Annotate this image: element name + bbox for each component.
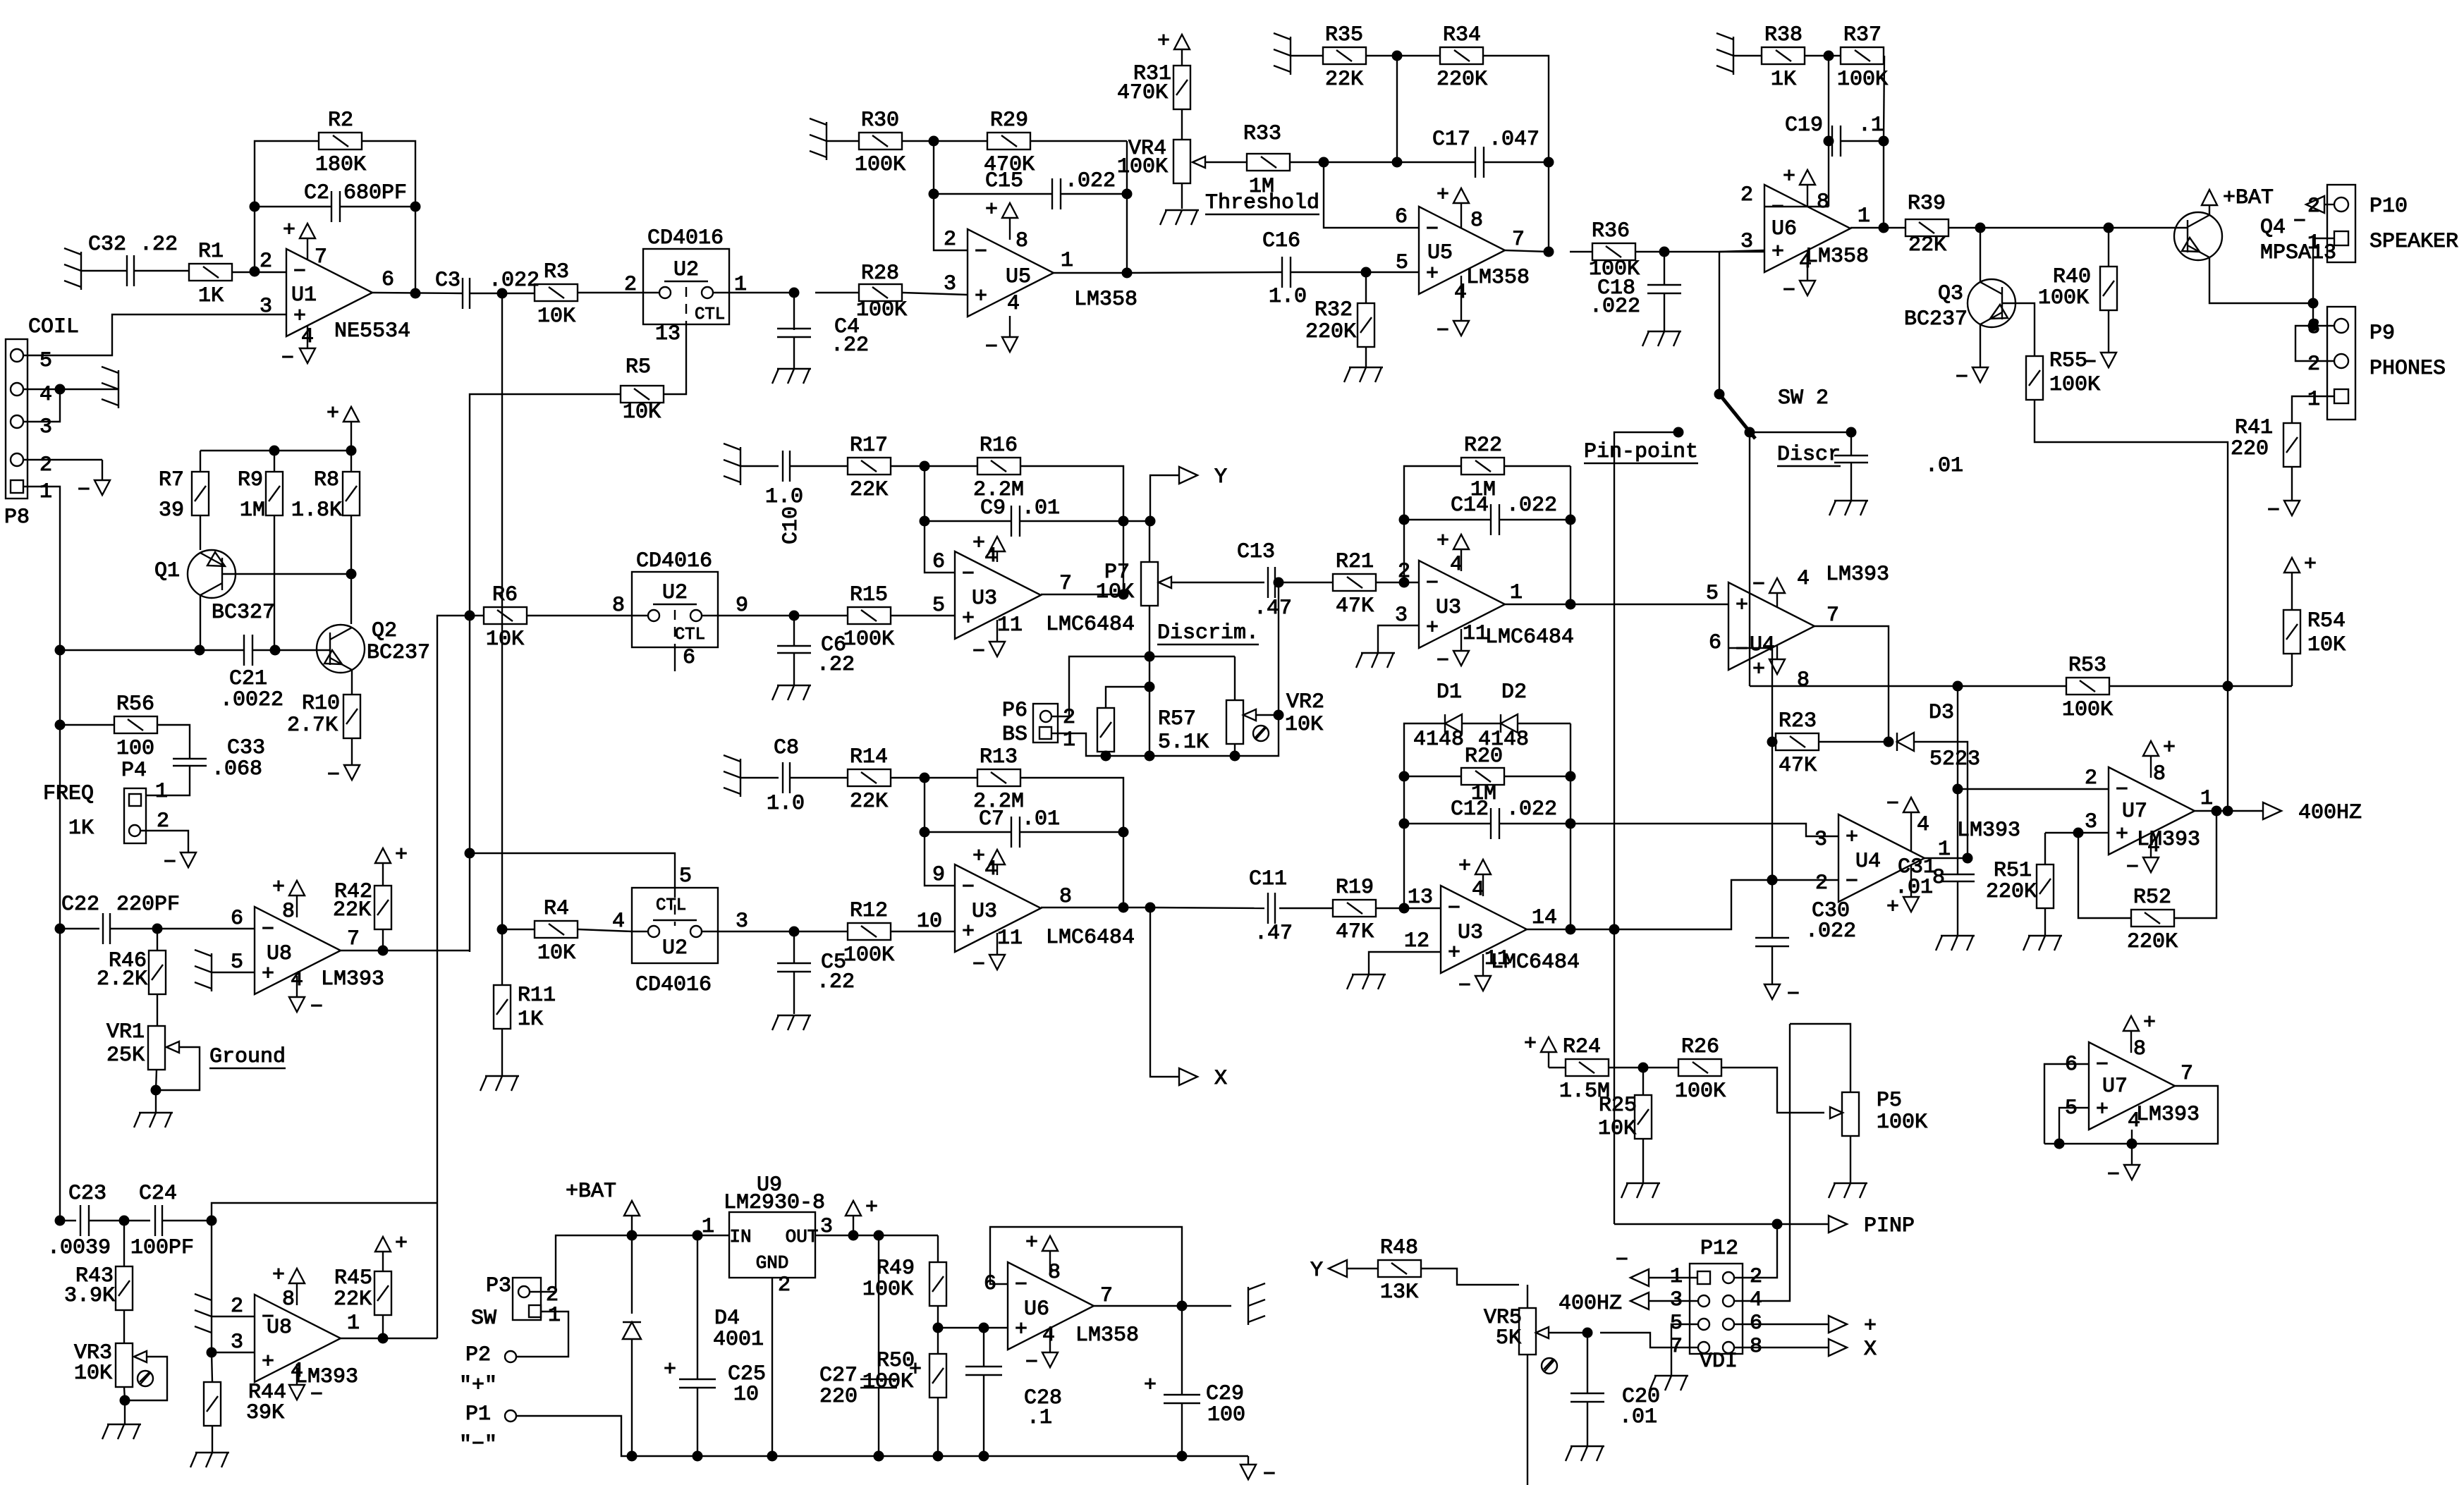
svg-text:400HZ: 400HZ — [1559, 1292, 1622, 1316]
svg-text:2: 2 — [1815, 872, 1828, 896]
svg-text:+: + — [975, 285, 987, 309]
svg-text:R57: R57 — [1158, 707, 1196, 731]
svg-text:C24: C24 — [139, 1182, 177, 1206]
svg-text:.0039: .0039 — [47, 1236, 111, 1260]
svg-text:+: + — [1524, 1032, 1537, 1056]
svg-text:R51: R51 — [1994, 859, 2032, 883]
svg-text:11: 11 — [1463, 622, 1488, 646]
svg-text:C17: C17 — [1432, 128, 1470, 152]
svg-text:−: − — [164, 851, 176, 875]
svg-text:.22: .22 — [831, 334, 869, 357]
svg-text:+: + — [1144, 1374, 1157, 1398]
svg-text:8: 8 — [2153, 762, 2166, 786]
svg-text:8: 8 — [1797, 668, 1810, 692]
svg-text:Q3: Q3 — [1938, 282, 1963, 306]
svg-text:+: + — [1783, 165, 1795, 189]
svg-text:.22: .22 — [817, 970, 855, 994]
svg-text:10K: 10K — [537, 941, 575, 965]
svg-text:8: 8 — [1016, 229, 1028, 253]
svg-text:.1: .1 — [1858, 114, 1884, 137]
svg-text:R41: R41 — [2235, 416, 2273, 440]
svg-text:C33: C33 — [227, 736, 265, 760]
svg-text:R10: R10 — [302, 692, 340, 716]
svg-text:47K: 47K — [1336, 920, 1374, 944]
svg-text:4: 4 — [2128, 1109, 2140, 1133]
svg-text:MPSA13: MPSA13 — [2260, 241, 2336, 265]
svg-text:.022: .022 — [1590, 295, 1640, 319]
svg-text:1: 1 — [155, 780, 168, 804]
svg-text:NE5534: NE5534 — [334, 319, 410, 343]
svg-text:1K: 1K — [1771, 68, 1796, 92]
svg-text:Pin-point: Pin-point — [1584, 440, 1698, 464]
svg-text:GND: GND — [756, 1252, 789, 1273]
svg-text:U2: U2 — [662, 936, 688, 960]
svg-text:.022: .022 — [1065, 169, 1116, 193]
svg-text:100K: 100K — [843, 943, 894, 967]
svg-text:100K: 100K — [2062, 698, 2113, 722]
svg-text:Q2: Q2 — [372, 619, 397, 643]
svg-text:4: 4 — [2147, 834, 2160, 858]
svg-text:10K: 10K — [623, 401, 661, 424]
svg-text:R52: R52 — [2133, 886, 2171, 910]
svg-text:Q1: Q1 — [154, 559, 180, 583]
svg-text:R38: R38 — [1764, 23, 1803, 47]
svg-text:6: 6 — [1709, 631, 1721, 655]
svg-text:LM358: LM358 — [1805, 245, 1869, 269]
svg-text:+: + — [2163, 736, 2176, 760]
svg-text:22K: 22K — [850, 478, 888, 502]
svg-text:+: + — [664, 1358, 676, 1382]
svg-text:1: 1 — [39, 480, 52, 504]
svg-text:100K: 100K — [1837, 68, 1888, 92]
svg-text:−: − — [962, 563, 975, 587]
svg-text:C12: C12 — [1451, 797, 1489, 821]
svg-text:4: 4 — [1797, 567, 1810, 591]
svg-text:11: 11 — [997, 613, 1023, 637]
svg-text:P9: P9 — [2370, 322, 2395, 346]
svg-text:R14: R14 — [850, 745, 888, 769]
svg-text:R23: R23 — [1779, 709, 1817, 733]
svg-text:100PF: 100PF — [130, 1236, 194, 1260]
svg-text:4: 4 — [1799, 250, 1812, 274]
svg-text:−: − — [1886, 793, 1899, 817]
svg-text:R13: R13 — [980, 745, 1018, 769]
svg-text:−: − — [2084, 351, 2097, 375]
svg-text:U7: U7 — [2122, 800, 2147, 824]
svg-text:−: − — [1458, 974, 1471, 998]
svg-text:CTL: CTL — [656, 896, 686, 915]
svg-text:1.0: 1.0 — [765, 485, 803, 509]
svg-text:R2: R2 — [328, 109, 353, 133]
svg-text:C32: C32 — [88, 233, 126, 257]
svg-text:+: + — [262, 1350, 274, 1374]
svg-text:8: 8 — [1817, 190, 1829, 214]
svg-text:1M: 1M — [240, 499, 265, 522]
svg-text:R29: R29 — [990, 109, 1028, 133]
svg-text:5K: 5K — [1496, 1326, 1521, 1350]
svg-text:10K: 10K — [1285, 713, 1323, 737]
svg-text:22K: 22K — [850, 790, 888, 814]
svg-text:D4: D4 — [714, 1307, 740, 1331]
svg-text:13K: 13K — [1380, 1281, 1418, 1304]
svg-text:−: − — [293, 260, 306, 284]
svg-text:C7: C7 — [979, 807, 1004, 831]
svg-text:.01: .01 — [1895, 876, 1933, 900]
svg-text:R24: R24 — [1563, 1035, 1601, 1059]
svg-text:−: − — [281, 347, 294, 371]
svg-text:R55: R55 — [2049, 349, 2087, 373]
svg-text:1.0: 1.0 — [1269, 285, 1307, 309]
svg-text:U4: U4 — [1855, 850, 1881, 874]
svg-text:R28: R28 — [861, 262, 899, 286]
svg-text:IN: IN — [729, 1226, 751, 1247]
svg-text:R26: R26 — [1681, 1035, 1719, 1059]
svg-text:100K: 100K — [855, 153, 905, 177]
svg-text:LMC6484: LMC6484 — [1485, 625, 1574, 649]
svg-text:R30: R30 — [861, 109, 899, 133]
svg-text:100K: 100K — [843, 628, 894, 652]
svg-text:4: 4 — [1042, 1324, 1055, 1347]
svg-text:R6: R6 — [492, 583, 518, 607]
svg-text:P1: P1 — [465, 1402, 491, 1426]
svg-text:R5: R5 — [626, 355, 651, 379]
svg-text:−: − — [1783, 279, 1795, 303]
svg-text:1.0: 1.0 — [767, 792, 805, 816]
svg-text:+: + — [272, 876, 285, 900]
svg-text:C19: C19 — [1785, 114, 1823, 137]
svg-text:−: − — [1426, 572, 1439, 596]
svg-text:−: − — [1437, 319, 1449, 343]
svg-text:P8: P8 — [4, 506, 30, 530]
svg-text:R45: R45 — [334, 1266, 372, 1290]
svg-text:+: + — [1752, 658, 1765, 682]
svg-text:10K: 10K — [1598, 1117, 1636, 1141]
svg-text:+: + — [962, 607, 975, 631]
svg-text:220K: 220K — [1986, 880, 2037, 904]
svg-text:R36: R36 — [1592, 219, 1630, 243]
svg-text:4: 4 — [39, 383, 52, 407]
svg-text:+: + — [1426, 616, 1439, 640]
svg-text:U2: U2 — [662, 581, 688, 605]
svg-text:U5: U5 — [1427, 241, 1453, 265]
svg-text:.022: .022 — [1506, 494, 1557, 518]
svg-text:OUT: OUT — [786, 1226, 819, 1247]
svg-text:R48: R48 — [1380, 1236, 1418, 1260]
svg-text:R49: R49 — [877, 1257, 915, 1281]
svg-text:R3: R3 — [544, 260, 569, 284]
svg-text:−: − — [2116, 778, 2128, 802]
svg-text:2: 2 — [2085, 766, 2097, 790]
svg-text:Discr: Discr — [1777, 443, 1841, 467]
svg-text:+: + — [1025, 1231, 1038, 1255]
svg-text:+: + — [1846, 826, 1858, 850]
svg-text:C3: C3 — [435, 269, 461, 293]
svg-text:Ground: Ground — [209, 1045, 286, 1069]
svg-text:+: + — [972, 532, 985, 556]
svg-text:Y: Y — [1214, 465, 1227, 489]
svg-text:R35: R35 — [1325, 23, 1363, 47]
svg-text:P10: P10 — [2370, 195, 2408, 219]
svg-text:CD4016: CD4016 — [647, 226, 724, 250]
svg-text:2: 2 — [778, 1273, 791, 1297]
svg-text:5: 5 — [679, 864, 692, 888]
svg-text:.0022: .0022 — [220, 688, 283, 712]
svg-text:BC327: BC327 — [212, 601, 275, 625]
svg-text:4001: 4001 — [713, 1328, 764, 1352]
svg-text:.1: .1 — [1027, 1406, 1052, 1430]
svg-text:R25: R25 — [1599, 1094, 1637, 1118]
svg-text:+: + — [1437, 530, 1449, 554]
svg-text:220K: 220K — [1437, 68, 1487, 92]
svg-text:39: 39 — [159, 499, 184, 522]
svg-text:+: + — [1437, 183, 1449, 207]
svg-text:22K: 22K — [1325, 68, 1363, 92]
svg-text:1: 1 — [2200, 787, 2213, 811]
svg-text:U4: U4 — [1750, 633, 1775, 657]
svg-text:9: 9 — [736, 594, 748, 618]
svg-text:5: 5 — [1396, 251, 1408, 275]
svg-text:U8: U8 — [267, 1316, 292, 1340]
svg-text:R11: R11 — [518, 984, 556, 1008]
svg-text:R17: R17 — [850, 434, 888, 458]
svg-text:10K: 10K — [2307, 633, 2346, 657]
svg-text:−: − — [972, 640, 985, 664]
svg-text:LM358: LM358 — [1074, 288, 1138, 312]
svg-text:R32: R32 — [1315, 298, 1353, 322]
svg-text:6: 6 — [932, 550, 945, 574]
svg-text:Discrim.: Discrim. — [1157, 621, 1259, 645]
svg-text:C10: C10 — [779, 506, 803, 544]
svg-text:P6: P6 — [1002, 699, 1027, 723]
svg-text:C9: C9 — [980, 496, 1006, 520]
svg-text:P12: P12 — [1700, 1237, 1738, 1261]
svg-text:470K: 470K — [1117, 81, 1168, 105]
svg-text:.47: .47 — [1254, 597, 1292, 621]
svg-text:P3: P3 — [486, 1274, 511, 1298]
svg-text:680PF: 680PF — [343, 181, 407, 205]
svg-text:220: 220 — [2231, 437, 2269, 461]
svg-text:6: 6 — [382, 268, 394, 292]
svg-text:+BAT: +BAT — [566, 1180, 616, 1204]
svg-text:+: + — [972, 845, 985, 869]
svg-text:+: + — [395, 843, 408, 867]
svg-text:P2: P2 — [465, 1343, 491, 1367]
svg-text:R15: R15 — [850, 583, 888, 607]
svg-text:100K: 100K — [2038, 286, 2089, 310]
svg-text:8: 8 — [1470, 209, 1483, 233]
svg-text:100K: 100K — [856, 298, 907, 322]
svg-text:−: − — [962, 876, 975, 900]
svg-text:−: − — [1437, 649, 1449, 673]
svg-text:25K: 25K — [106, 1044, 145, 1068]
svg-text:P5: P5 — [1877, 1089, 1902, 1113]
svg-text:+: + — [2096, 1098, 2109, 1122]
svg-text:R1: R1 — [198, 240, 224, 264]
svg-text:R33: R33 — [1243, 122, 1281, 146]
svg-text:LMC6484: LMC6484 — [1046, 926, 1135, 950]
svg-text:10K: 10K — [1096, 580, 1134, 604]
svg-text:2: 2 — [39, 453, 52, 477]
svg-text:+BAT: +BAT — [2223, 186, 2274, 210]
svg-text:R16: R16 — [980, 434, 1018, 458]
svg-text:U3: U3 — [1458, 921, 1483, 945]
svg-text:C15: C15 — [985, 169, 1023, 193]
svg-text:U6: U6 — [1024, 1297, 1049, 1321]
svg-text:8: 8 — [2133, 1037, 2146, 1061]
svg-text:12: 12 — [1404, 929, 1429, 953]
svg-text:−: − — [1846, 870, 1858, 894]
svg-text:C29: C29 — [1206, 1382, 1244, 1406]
svg-text:D2: D2 — [1501, 680, 1527, 704]
svg-text:10K: 10K — [486, 628, 524, 652]
svg-text:+: + — [1448, 941, 1460, 965]
svg-text:5223: 5223 — [1929, 747, 1980, 771]
svg-text:9: 9 — [932, 863, 945, 887]
svg-text:+: + — [272, 1264, 285, 1288]
svg-text:−: − — [1771, 196, 1784, 220]
svg-text:4: 4 — [1007, 292, 1020, 316]
svg-text:8: 8 — [612, 594, 625, 618]
svg-text:400HZ: 400HZ — [2298, 801, 2362, 825]
svg-text:220PF: 220PF — [116, 893, 180, 917]
svg-text:100K: 100K — [1675, 1080, 1726, 1104]
svg-text:R12: R12 — [850, 899, 888, 923]
svg-text:.068: .068 — [212, 757, 262, 781]
svg-text:.022: .022 — [489, 269, 539, 293]
svg-text:10K: 10K — [74, 1362, 112, 1386]
svg-text:180K: 180K — [315, 153, 366, 177]
svg-text:+: + — [1015, 1318, 1027, 1342]
svg-text:2: 2 — [1740, 183, 1753, 207]
svg-text:C13: C13 — [1237, 540, 1275, 564]
svg-text:8: 8 — [282, 1288, 295, 1312]
svg-text:PHONES: PHONES — [2370, 357, 2446, 381]
svg-text:−: − — [1025, 1351, 1038, 1375]
svg-text:2.7K: 2.7K — [287, 714, 338, 738]
svg-text:2: 2 — [624, 273, 637, 297]
svg-text:R8: R8 — [314, 468, 339, 492]
svg-text:2: 2 — [260, 250, 272, 274]
svg-text:6: 6 — [683, 646, 695, 670]
svg-text:3: 3 — [1815, 828, 1827, 852]
svg-text:−: − — [2293, 210, 2306, 234]
svg-text:8: 8 — [1059, 885, 1072, 909]
svg-text:R50: R50 — [877, 1349, 915, 1373]
svg-text:−: − — [1263, 1463, 1276, 1485]
svg-text:.047: .047 — [1489, 128, 1539, 152]
svg-text:47K: 47K — [1779, 754, 1817, 778]
svg-text:7: 7 — [1100, 1284, 1113, 1308]
svg-text:CTL: CTL — [695, 305, 725, 324]
svg-text:SW: SW — [471, 1307, 496, 1331]
svg-text:220K: 220K — [1305, 320, 1356, 344]
svg-text:LM358: LM358 — [1466, 266, 1530, 290]
svg-text:13: 13 — [1408, 886, 1433, 910]
svg-text:220: 220 — [819, 1385, 858, 1409]
svg-text:10: 10 — [733, 1383, 759, 1407]
svg-text:U3: U3 — [972, 900, 997, 924]
svg-text:C21: C21 — [229, 667, 267, 691]
svg-text:FREQ: FREQ — [43, 782, 94, 806]
svg-text:R54: R54 — [2307, 609, 2346, 633]
svg-text:7: 7 — [315, 245, 327, 269]
svg-text:.022: .022 — [1506, 797, 1557, 821]
svg-text:3: 3 — [736, 910, 748, 934]
svg-text:R40: R40 — [2053, 265, 2091, 289]
svg-text:R20: R20 — [1465, 745, 1503, 769]
svg-text:C2: C2 — [304, 181, 329, 205]
svg-text:U3: U3 — [1436, 596, 1461, 620]
svg-text:CTL: CTL — [675, 625, 705, 644]
svg-text:.01: .01 — [1619, 1405, 1657, 1429]
svg-text:LM393: LM393 — [2136, 1103, 2200, 1127]
svg-text:BC237: BC237 — [1904, 307, 1968, 331]
svg-text:R22: R22 — [1464, 434, 1502, 458]
svg-text:−: − — [1448, 897, 1460, 921]
svg-text:R53: R53 — [2068, 654, 2106, 678]
svg-text:SPEAKER: SPEAKER — [2370, 230, 2458, 254]
svg-text:3: 3 — [2307, 316, 2320, 340]
svg-text:1K: 1K — [68, 817, 94, 841]
svg-text:R4: R4 — [544, 897, 569, 921]
svg-text:−: − — [2267, 499, 2280, 523]
svg-text:1K: 1K — [198, 284, 224, 308]
svg-text:100K: 100K — [1877, 1111, 1927, 1135]
svg-text:1.8K: 1.8K — [291, 499, 342, 522]
svg-text:D3: D3 — [1929, 701, 1954, 725]
svg-text:LM358: LM358 — [1075, 1324, 1139, 1347]
svg-text:D1: D1 — [1437, 680, 1462, 704]
svg-text:6: 6 — [231, 907, 243, 931]
svg-text:.01: .01 — [1022, 807, 1060, 831]
svg-text:7: 7 — [1059, 572, 1072, 596]
svg-text:P4: P4 — [121, 759, 147, 783]
svg-text:1M: 1M — [1249, 175, 1274, 199]
svg-text:−: − — [1736, 638, 1748, 662]
svg-text:Q4: Q4 — [2260, 216, 2286, 240]
svg-text:11: 11 — [1484, 947, 1510, 971]
svg-text:.22: .22 — [817, 653, 855, 677]
svg-text:+: + — [962, 920, 975, 944]
svg-text:VR1: VR1 — [106, 1020, 145, 1044]
svg-text:220K: 220K — [2127, 930, 2178, 954]
svg-text:3: 3 — [1395, 604, 1408, 628]
svg-text:13: 13 — [655, 322, 681, 346]
svg-text:C8: C8 — [774, 736, 799, 760]
svg-text:6: 6 — [1395, 205, 1408, 229]
svg-text:1: 1 — [1510, 581, 1523, 605]
svg-text:−: − — [310, 996, 323, 1020]
svg-text:3: 3 — [2085, 810, 2097, 834]
svg-text:7: 7 — [1512, 228, 1525, 252]
svg-text:−: − — [310, 1383, 323, 1407]
svg-text:1: 1 — [702, 1215, 714, 1239]
svg-text:100K: 100K — [862, 1370, 913, 1394]
svg-text:11: 11 — [997, 927, 1023, 951]
svg-text:R34: R34 — [1443, 23, 1481, 47]
svg-text:5: 5 — [1706, 582, 1719, 606]
svg-text:R9: R9 — [238, 468, 263, 492]
svg-text:−: − — [1752, 573, 1765, 597]
svg-text:100K: 100K — [862, 1278, 913, 1302]
svg-text:R19: R19 — [1336, 876, 1374, 900]
svg-text:4: 4 — [1917, 813, 1929, 837]
svg-text:2.2K: 2.2K — [97, 967, 147, 991]
svg-text:+: + — [865, 1196, 878, 1220]
svg-text:−: − — [1616, 1249, 1628, 1273]
svg-text:R7: R7 — [159, 468, 184, 492]
svg-text:3: 3 — [231, 1331, 243, 1355]
